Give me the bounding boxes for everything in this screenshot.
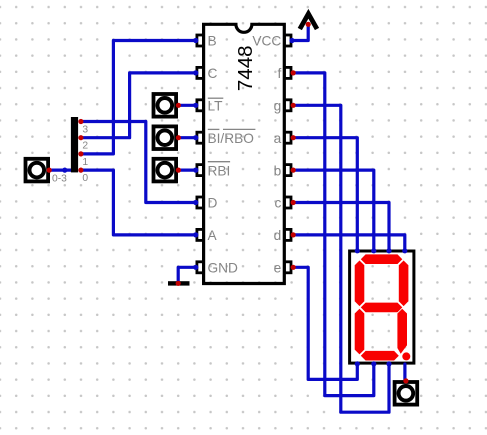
svg-text:2: 2 (82, 141, 88, 152)
svg-text:1: 1 (82, 157, 88, 168)
svg-text:B: B (208, 34, 217, 49)
svg-text:f: f (277, 66, 281, 81)
svg-text:RBI: RBI (208, 163, 231, 178)
svg-text:3: 3 (82, 125, 88, 136)
svg-text:7448: 7448 (234, 45, 257, 91)
svg-text:LT: LT (208, 99, 224, 114)
svg-text:D: D (208, 196, 218, 211)
svg-text:d: d (274, 228, 282, 243)
svg-text:a: a (274, 131, 282, 146)
svg-text:e: e (274, 261, 282, 276)
svg-text:C: C (208, 66, 218, 81)
svg-text:c: c (274, 196, 281, 211)
svg-text:0: 0 (82, 173, 88, 184)
svg-text:0-3: 0-3 (52, 173, 67, 184)
svg-text:A: A (208, 228, 218, 243)
svg-text:b: b (274, 163, 282, 178)
svg-text:g: g (274, 99, 282, 114)
svg-text:GND: GND (208, 261, 239, 276)
svg-text:BI/RBO: BI/RBO (208, 131, 254, 146)
